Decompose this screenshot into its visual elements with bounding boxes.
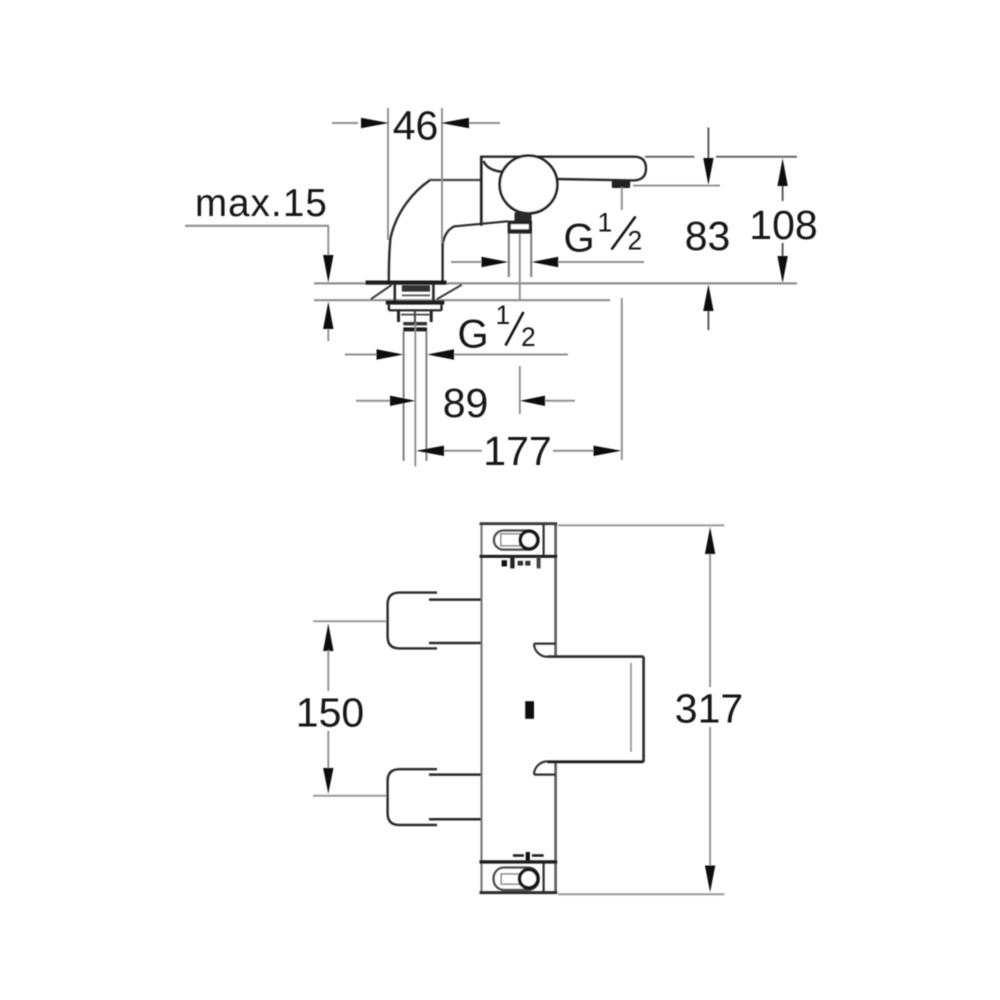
dimension 83 (707, 128, 709, 159)
through-deck shank edges (395, 284, 434, 302)
dimension 150 (313, 620, 387, 622)
top extension line (645, 156, 797, 158)
spout right end cap (633, 157, 646, 181)
body right edge (554, 524, 557, 893)
spout bottom edge (557, 179, 633, 180)
lower G1/2 dimension arrows (345, 354, 377, 356)
dimension 177 (416, 446, 444, 456)
T bottom fillet arc (534, 761, 548, 774)
dimension 108 (777, 158, 787, 186)
svg-text:83: 83 (685, 213, 731, 259)
leg front curve (443, 226, 456, 282)
T top fillet arc (534, 644, 548, 657)
top cap slot (494, 531, 539, 550)
top cap ring (520, 531, 538, 549)
leg rear curve (389, 181, 430, 282)
leg joint line (429, 179, 480, 181)
G1/2 nipple (508, 221, 532, 234)
svg-text:89: 89 (443, 380, 489, 426)
shank pipe right line (530, 234, 532, 277)
svg-text:46: 46 (393, 103, 439, 149)
outlet port mark (525, 701, 534, 719)
bottom scale marks (513, 854, 524, 857)
deck top line (314, 282, 797, 284)
svg-text:2: 2 (628, 225, 643, 255)
deck hatch right (437, 285, 462, 299)
bottom cap (480, 860, 558, 863)
svg-text:2: 2 (521, 322, 536, 352)
dimension 89 (356, 400, 391, 402)
base flange bar (366, 281, 447, 285)
collar (403, 322, 427, 325)
body left edge (480, 524, 482, 893)
outlet extension line segments (621, 187, 623, 460)
svg-text:150: 150 (296, 689, 364, 735)
svg-text:1: 1 (496, 300, 511, 330)
hex nut (399, 311, 432, 322)
faucet top edge (481, 155, 634, 157)
locknut flange bar (386, 300, 445, 304)
top scale marks (502, 560, 507, 566)
svg-text:177: 177 (483, 428, 551, 474)
bottom handle stems (429, 775, 481, 820)
bottom cap ring (520, 870, 538, 888)
lever back fillet arc (484, 161, 504, 172)
thread band (402, 285, 430, 291)
T top edge (548, 655, 644, 658)
top handle stems (429, 600, 481, 643)
dimension 46 (387, 108, 389, 240)
shank center extension segment (519, 366, 521, 414)
locknut ring (389, 305, 442, 311)
cartridge circle (500, 156, 558, 214)
spout outlet tab (612, 181, 630, 188)
connector under circle (515, 213, 532, 222)
deck hatch left (371, 285, 392, 299)
upper G1/2 dimension arrows (451, 261, 482, 263)
bottom handle knob (388, 769, 437, 825)
bottom cap slot (494, 868, 539, 890)
svg-text:108: 108 (749, 202, 817, 248)
deck bottom line (314, 299, 610, 301)
svg-text:G: G (564, 217, 595, 261)
body left edge (480, 156, 483, 226)
T outlet block top ledge (534, 642, 556, 644)
svg-text:max.15: max.15 (195, 182, 328, 225)
T right edge (642, 657, 645, 762)
top handle knob (388, 593, 437, 649)
svg-text:G: G (458, 313, 489, 357)
tail pipe lines (404, 331, 427, 461)
pipe centerline (414, 323, 416, 467)
svg-text:317: 317 (675, 686, 743, 732)
top cap (480, 522, 558, 525)
svg-text:1: 1 (598, 208, 613, 238)
shank pipe left line (508, 234, 510, 277)
T inner line (630, 663, 632, 752)
body bottom edge (455, 221, 508, 226)
T bottom edge (548, 760, 644, 763)
dimension 317 (558, 524, 725, 526)
T bottom ledge (534, 773, 556, 775)
outlet level extension line (633, 185, 720, 187)
shank centerline (519, 234, 521, 301)
